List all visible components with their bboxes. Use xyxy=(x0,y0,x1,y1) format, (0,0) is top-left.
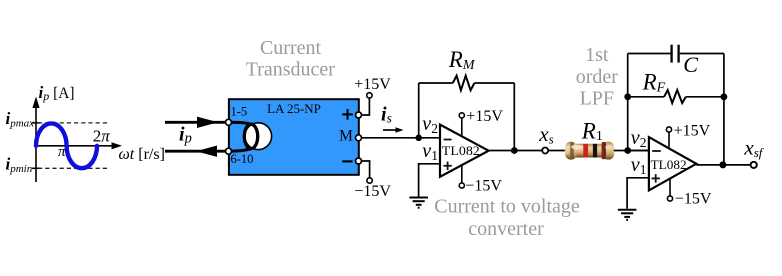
svg-text:M: M xyxy=(339,128,353,145)
svg-text:+15V: +15V xyxy=(674,122,711,139)
svg-text:π: π xyxy=(58,144,66,160)
wire M output to op-amp xyxy=(362,137,441,139)
node feedback junction at v2 xyxy=(415,135,422,142)
svg-text:LA 25-NP: LA 25-NP xyxy=(267,101,321,116)
node output junction xyxy=(511,147,518,154)
pin - terminal xyxy=(356,158,362,164)
wire feedback left vertical xyxy=(627,54,629,151)
pin 6-10 terminal xyxy=(226,148,232,154)
wire feedback top right xyxy=(474,82,514,84)
svg-text:+15V: +15V xyxy=(466,108,503,125)
minus input mark xyxy=(652,150,661,152)
supply -15V stub xyxy=(669,179,671,196)
supply -15V stub xyxy=(461,165,463,183)
wire v1 to ground xyxy=(627,178,649,209)
arrowhead into pin 1-5 xyxy=(197,117,218,128)
plus input mark xyxy=(652,174,660,182)
svg-text:TL082: TL082 xyxy=(442,144,480,158)
svg-text:+15V: +15V xyxy=(354,76,391,93)
op-amp U3 TL082 (LPF) xyxy=(631,122,712,207)
svg-text:−15V: −15V xyxy=(675,190,712,207)
terminal +15V xyxy=(459,113,464,118)
wire -15V stub xyxy=(359,161,370,178)
wire v2 node to op-amp xyxy=(628,150,649,152)
node: sine waveform plot of primary current xyxy=(6,83,165,182)
arrow is direction xyxy=(383,127,404,133)
svg-text:1-5: 1-5 xyxy=(231,104,248,118)
terminal xsf xyxy=(751,162,757,168)
tick ipmin xyxy=(32,167,40,169)
pin 1-5 terminal xyxy=(226,119,232,125)
primary loop wire top xyxy=(229,122,252,124)
node v2 junction xyxy=(624,147,631,154)
resistor R1 (carbon film) xyxy=(565,142,615,160)
node RF left junction xyxy=(624,93,631,100)
svg-text:1st: 1st xyxy=(585,44,609,66)
body xyxy=(229,99,359,175)
wire capacitor rail right xyxy=(680,53,724,55)
wire primary bottom xyxy=(165,150,229,153)
wire R1 to v2 node xyxy=(614,150,649,152)
capacitor C plate right xyxy=(677,45,679,63)
wire feedback up xyxy=(418,83,420,138)
svg-text:LPF: LPF xyxy=(580,87,614,109)
aperture circle xyxy=(245,123,272,150)
terminal +15V xyxy=(666,127,671,132)
svg-text:TL082: TL082 xyxy=(651,158,687,172)
plus input mark xyxy=(443,162,451,170)
svg-text:C: C xyxy=(683,52,698,77)
svg-text:−15V: −15V xyxy=(465,177,502,194)
svg-text:Current to voltage: Current to voltage xyxy=(434,196,580,218)
terminal +15V xyxy=(367,93,372,98)
wire feedback down to output xyxy=(513,83,515,151)
wire op-amp output xyxy=(489,150,543,152)
triangle xyxy=(649,137,696,190)
terminal -15V xyxy=(667,196,672,201)
wire feedback right vertical xyxy=(723,54,725,165)
terminal -15V xyxy=(459,183,464,188)
wire primary top xyxy=(165,121,229,124)
label - pin xyxy=(342,160,352,162)
svg-text:order: order xyxy=(576,66,619,88)
resistor RF xyxy=(664,90,686,103)
wire output to xsf xyxy=(696,164,751,166)
primary loop ellipse xyxy=(244,124,257,148)
svg-text:Current: Current xyxy=(260,37,322,59)
dashed level ipmax xyxy=(38,122,108,124)
label + pin xyxy=(342,113,353,115)
resistor RM xyxy=(453,76,475,91)
node xs test point xyxy=(542,148,548,154)
ground GND1 xyxy=(409,198,428,208)
pin M terminal xyxy=(356,135,362,141)
svg-text:2π: 2π xyxy=(93,126,111,145)
tick ipmax xyxy=(32,122,40,124)
wire capacitor rail left xyxy=(628,53,671,55)
op-amp U2 TL082 (I to V) xyxy=(422,108,503,194)
svg-text:−15V: −15V xyxy=(354,183,391,200)
minus input mark xyxy=(444,139,452,141)
y-axis xyxy=(32,97,39,183)
terminal -15V xyxy=(367,178,372,183)
triangle xyxy=(440,125,489,177)
supply +15V stub xyxy=(461,118,463,136)
svg-text:Transducer: Transducer xyxy=(246,59,336,81)
ground GND2 xyxy=(618,210,637,220)
dashed level ipmin xyxy=(38,167,108,169)
node output junction xyxy=(719,161,726,168)
svg-text:converter: converter xyxy=(468,218,544,240)
wire RF rail left xyxy=(628,96,664,98)
wire RF rail right xyxy=(686,96,724,98)
wire v1 to ground xyxy=(419,164,440,197)
node RF right junction xyxy=(721,93,728,100)
svg-text:ωt [r/s]: ωt [r/s] xyxy=(119,146,165,163)
x-axis xyxy=(36,142,122,149)
wire +15V stub xyxy=(359,98,370,115)
pin + terminal xyxy=(356,112,362,118)
capacitor C plate left xyxy=(670,45,672,63)
transducer supply and output pins xyxy=(354,76,391,200)
svg-text:6-10: 6-10 xyxy=(231,152,254,166)
supply +15V stub xyxy=(668,132,670,148)
sine curve xyxy=(36,123,97,168)
primary loop wire bottom xyxy=(229,148,252,151)
arrowhead out of pin 6-10 xyxy=(196,146,217,157)
node: primary current input arrows xyxy=(165,117,229,157)
transducer U1 LA 25-NP xyxy=(226,99,359,175)
wire xs to R1 xyxy=(548,150,567,152)
wire feedback top left xyxy=(419,82,453,84)
